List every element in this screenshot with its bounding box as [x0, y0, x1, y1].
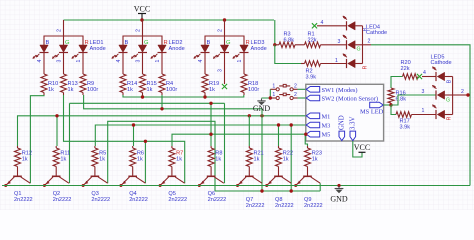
svg-text:2: 2: [294, 92, 297, 98]
svg-text:3: 3: [422, 89, 425, 95]
LED LED1 R channel: [79, 45, 87, 52]
LED LED5 R channel: [435, 110, 437, 119]
wire SW1 to port: [298, 88, 306, 90]
svg-text:2n2222: 2n2222: [14, 197, 33, 203]
LED LED1 G channel: [59, 45, 67, 52]
resistor R21: [248, 146, 250, 148]
svg-text:B: B: [447, 79, 453, 83]
svg-text:2n2222: 2n2222: [129, 197, 148, 203]
svg-text:1k: 1k: [22, 156, 28, 162]
svg-text:B: B: [125, 40, 129, 46]
port M5: [306, 131, 320, 137]
svg-text:1k: 1k: [176, 156, 182, 162]
svg-text:SW2 (Motion Sensor): SW2 (Motion Sensor): [322, 96, 378, 103]
transistor Q3: [91, 175, 100, 177]
port M1: [306, 113, 320, 119]
resistor R13: [61, 74, 67, 92]
LED LED3 B channel: [201, 45, 209, 52]
wire R23 jog: [305, 134, 307, 146]
svg-text:GND: GND: [338, 115, 345, 130]
svg-text:1k: 1k: [283, 156, 289, 162]
svg-text:1k: 1k: [209, 87, 215, 93]
wire R8 riser: [210, 103, 212, 146]
svg-text:4: 4: [116, 59, 122, 62]
port 3.3V vertical: [350, 131, 356, 141]
wire MS LED net: [383, 104, 391, 106]
wire Q4 collector riser: [144, 141, 146, 183]
junction R15 bus: [141, 95, 144, 98]
resistor R2: [275, 45, 301, 64]
wire rail drop to R3: [274, 20, 276, 45]
ground GND switches: [261, 99, 263, 101]
junction Q8 emitter: [265, 184, 268, 187]
resistor R4: [159, 74, 165, 92]
resistor R8: [210, 146, 212, 148]
junction R8 M5 bus: [209, 133, 212, 136]
svg-text:M1: M1: [322, 113, 331, 120]
no-connect X LED5 pin4: [417, 74, 422, 79]
supply VCC IC: [359, 151, 366, 153]
svg-text:1k: 1k: [312, 156, 318, 162]
svg-text:4: 4: [321, 20, 324, 26]
svg-text:22k: 22k: [401, 66, 410, 72]
svg-text:M3: M3: [322, 123, 331, 130]
svg-text:1k: 1k: [147, 87, 153, 93]
resistor R10: [41, 74, 47, 92]
svg-text:R: R: [363, 65, 369, 69]
wire LED5 common: [452, 77, 454, 115]
svg-text:4: 4: [198, 59, 204, 62]
svg-text:MS LED: MS LED: [360, 109, 384, 116]
svg-text:1k: 1k: [48, 87, 54, 93]
svg-text:6.8k: 6.8k: [284, 37, 295, 43]
svg-text:R: R: [246, 40, 250, 46]
svg-text:1: 1: [237, 59, 243, 62]
wire bus LED1-G y141.3: [64, 95, 185, 183]
svg-text:2n2222: 2n2222: [246, 203, 265, 209]
svg-text:1k: 1k: [254, 156, 260, 162]
svg-text:1: 1: [422, 108, 425, 114]
LED LED2 B channel: [119, 45, 127, 52]
svg-text:3.3V: 3.3V: [349, 117, 356, 130]
wire LED4 pin2: [363, 44, 372, 46]
svg-text:6.8k: 6.8k: [396, 96, 407, 102]
svg-text:4: 4: [37, 59, 43, 62]
svg-text:GND: GND: [330, 195, 348, 204]
wire R1 to LED4 pin3: [321, 44, 347, 46]
wire MS LED to LED5 pin3: [391, 95, 436, 105]
svg-text:G: G: [446, 98, 450, 104]
junction Q7 emitter: [236, 184, 239, 187]
junction Q2 emitter: [43, 184, 46, 187]
LED LED4 G channel: [346, 40, 348, 49]
IC module U1 frame: [306, 84, 384, 141]
svg-text:1k: 1k: [215, 156, 221, 162]
svg-text:2n2222: 2n2222: [91, 197, 110, 203]
LED LED4 R channel: [346, 59, 348, 68]
wire bus LED2 group y97: [123, 95, 244, 97]
resistor R6: [132, 146, 134, 148]
wire Q8 collector riser: [290, 125, 292, 191]
svg-text:1: 1: [272, 83, 275, 89]
svg-text:2: 2: [368, 39, 371, 45]
svg-text:2n2222: 2n2222: [304, 203, 323, 209]
resistor R11: [55, 146, 57, 148]
port MS LED: [370, 102, 384, 108]
svg-text:2n2222: 2n2222: [168, 197, 187, 203]
svg-text:Cathode: Cathode: [366, 30, 387, 36]
wire R17 to LED5 pin1: [412, 114, 437, 116]
svg-text:R: R: [85, 40, 89, 46]
svg-text:R: R: [447, 116, 453, 120]
wire Q6 collector riser: [224, 103, 226, 183]
junction R11 bus: [55, 114, 58, 117]
wire right edge return: [371, 45, 470, 186]
svg-text:G: G: [357, 47, 361, 53]
no-connect X LED4 pin4: [312, 23, 317, 28]
svg-text:B: B: [207, 40, 211, 46]
supply VCC: [141, 14, 143, 21]
transistor Q4: [128, 175, 137, 177]
wire Q7 collector riser: [261, 109, 263, 191]
junction R4 bus: [160, 107, 163, 110]
wire LED2 anode feed: [142, 20, 144, 45]
wire LED1 anode feed: [63, 20, 65, 45]
wire bus Q3 y121.3: [108, 121, 215, 191]
svg-text:3.9k: 3.9k: [400, 124, 411, 130]
junction M5 R23: [304, 133, 307, 136]
wire R4 tap: [161, 95, 163, 109]
LED LED4 B channel: [346, 21, 348, 30]
junction Q6 emitter: [198, 184, 201, 187]
wire LED3 anode feed: [224, 20, 226, 45]
junction LED5 right edge: [466, 93, 469, 96]
junction Q1 emitter: [4, 184, 7, 187]
junction Q7 riser bus: [260, 114, 263, 117]
svg-text:1: 1: [155, 59, 161, 62]
port M3: [306, 122, 320, 128]
svg-text:2: 2: [294, 83, 297, 89]
junction Q4 riser: [144, 140, 147, 143]
svg-text:G: G: [226, 40, 231, 46]
wire emitter ground rail: [2, 185, 470, 187]
svg-text:G: G: [65, 40, 70, 46]
wire R6 riser: [133, 125, 135, 146]
transistor Q1: [13, 175, 22, 177]
wire LED1-B to Q1 collector: [30, 95, 44, 183]
transistor Q7: [245, 175, 254, 177]
wire LED5 pin2: [453, 94, 468, 96]
svg-text:G: G: [144, 40, 149, 46]
wire R22 riser: [278, 125, 280, 146]
wire switch commons: [262, 89, 271, 98]
svg-text:100r: 100r: [166, 87, 177, 93]
LED LED1 B channel: [40, 45, 48, 52]
svg-text:1k: 1k: [127, 87, 133, 93]
wire Q2 collector riser: [69, 103, 71, 183]
svg-text:M5: M5: [322, 132, 331, 139]
LED LED3 G channel: [220, 45, 228, 52]
svg-text:3.9k: 3.9k: [306, 74, 317, 80]
junction R16 MS LED: [389, 103, 392, 106]
resistor R1: [295, 44, 305, 46]
svg-text:SW1 (Modes): SW1 (Modes): [322, 87, 358, 94]
transistor Q2: [52, 175, 61, 177]
resistor R18: [241, 74, 247, 92]
junction LED3 feed: [223, 18, 226, 21]
resistor R3: [275, 44, 279, 46]
port SW1 (Modes): [306, 87, 320, 93]
svg-text:2: 2: [135, 29, 141, 32]
svg-text:R: R: [164, 40, 168, 46]
resistor R20: [391, 77, 403, 89]
junction R21 bus: [248, 114, 251, 117]
resistor R19: [202, 74, 208, 92]
transistor Q8: [274, 175, 283, 177]
wire Q9 collector riser: [319, 183, 321, 191]
junction R6 bus: [132, 123, 135, 126]
wire bus collectors y191: [215, 190, 320, 192]
junction Q8 riser M3: [290, 123, 293, 126]
switch SW2 pushbutton: [276, 96, 279, 99]
junction VCC rail: [140, 18, 143, 21]
junction R19 bus: [203, 95, 206, 98]
resistor R12: [17, 146, 19, 148]
wire LED1 anode bracket: [44, 36, 83, 45]
svg-text:1k: 1k: [60, 156, 66, 162]
resistor R17: [391, 105, 396, 115]
LED LED5 G channel: [435, 90, 437, 99]
wire LED4 common: [362, 26, 364, 64]
switch SW1 pushbutton: [276, 88, 279, 91]
svg-text:1: 1: [76, 59, 82, 62]
svg-text:VCC: VCC: [354, 143, 370, 152]
svg-text:2: 2: [56, 29, 62, 32]
svg-text:B: B: [46, 40, 50, 46]
wire R2 to LED4 pin1: [321, 63, 347, 65]
wire bus R9-R4 y109: [84, 95, 262, 109]
no-connect X LED3 G pin 3: [222, 84, 227, 89]
svg-text:Anode: Anode: [90, 46, 106, 52]
svg-text:VCC: VCC: [134, 4, 150, 13]
svg-text:22k: 22k: [308, 37, 317, 43]
transistor Q5: [168, 175, 177, 177]
svg-text:3: 3: [57, 59, 63, 62]
wire bus M5 y134.2: [172, 134, 306, 146]
svg-text:1: 1: [335, 58, 338, 64]
resistor R9: [80, 74, 86, 92]
wire LED3 anode bracket: [205, 36, 244, 45]
wire R21 riser: [248, 116, 250, 146]
wire SW2 to port: [298, 97, 306, 99]
svg-text:3: 3: [218, 69, 224, 72]
LED LED2 R channel: [158, 45, 166, 52]
junction Q3 emitter: [82, 184, 85, 187]
svg-text:2n2222: 2n2222: [208, 197, 227, 203]
wire R19 tap: [204, 95, 206, 97]
svg-text:3: 3: [338, 39, 341, 45]
wire VCC top rail: [64, 19, 275, 21]
resistor R16: [388, 88, 394, 103]
svg-text:1k: 1k: [68, 87, 74, 93]
wire R15 tap: [142, 95, 144, 97]
port SW2 (Motion Sensor): [306, 95, 320, 101]
resistor R5: [94, 146, 96, 148]
svg-text:2n2222: 2n2222: [275, 203, 294, 209]
LED LED2 G channel: [138, 45, 146, 52]
svg-text:Anode: Anode: [169, 46, 185, 52]
svg-text:3: 3: [136, 59, 142, 62]
wire bus Q2-Q6 y103: [70, 102, 225, 104]
transistor Q6: [207, 175, 216, 177]
svg-text:2: 2: [461, 89, 464, 95]
svg-text:4: 4: [423, 70, 426, 76]
svg-text:1k: 1k: [99, 156, 105, 162]
resistor R22: [278, 146, 280, 148]
LED LED3 R channel: [240, 45, 248, 52]
svg-text:2n2222: 2n2222: [53, 197, 72, 203]
junction Q9 emitter: [294, 184, 297, 187]
junction Q7 collector: [260, 189, 263, 192]
svg-text:1: 1: [272, 92, 275, 98]
resistor R23: [307, 146, 309, 148]
svg-text:1k: 1k: [137, 156, 143, 162]
wire 3.3V to VCC: [353, 141, 362, 157]
wire R11 tap: [56, 116, 58, 146]
resistor R14: [120, 74, 126, 92]
transistor Q9: [303, 175, 312, 177]
svg-text:Cathode: Cathode: [431, 60, 452, 66]
junction Q4 emitter: [119, 184, 122, 187]
svg-text:Anode: Anode: [251, 46, 267, 52]
junction R3 node: [273, 43, 276, 46]
svg-text:100r: 100r: [87, 87, 98, 93]
junction R8 top: [209, 102, 212, 105]
wire bus M1 y115.8: [18, 116, 306, 146]
svg-text:2: 2: [217, 29, 223, 32]
junction Q5 emitter: [159, 184, 162, 187]
junction switch GND: [269, 96, 272, 99]
port GND vertical: [339, 131, 345, 141]
wire LED2 anode bracket: [123, 36, 162, 45]
resistor R7: [171, 146, 173, 148]
junction R22 bus: [277, 123, 280, 126]
ground GND bottom: [337, 184, 340, 187]
junction Q8 collector: [290, 189, 293, 192]
wire bus M3 y125: [95, 125, 305, 146]
LED LED5 B channel: [435, 72, 437, 81]
resistor R15: [140, 74, 146, 92]
svg-text:GND: GND: [253, 104, 271, 113]
svg-text:100r: 100r: [248, 87, 259, 93]
